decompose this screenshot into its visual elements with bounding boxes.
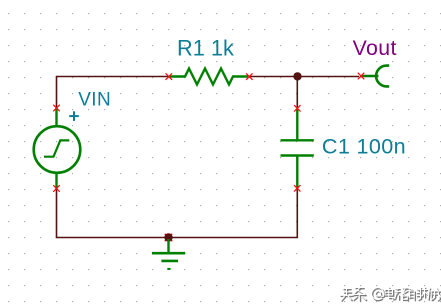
svg-text:R1 1k: R1 1k bbox=[177, 36, 234, 61]
svg-text:VIN: VIN bbox=[78, 90, 111, 111]
svg-text:C1 100n: C1 100n bbox=[322, 133, 406, 158]
svg-text:Vout: Vout bbox=[353, 36, 397, 60]
